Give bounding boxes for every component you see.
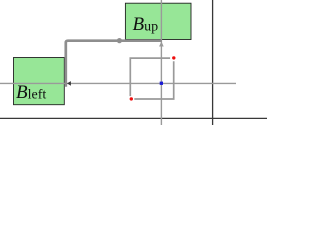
axis horizontal [0, 117, 267, 119]
node circle on path [117, 38, 122, 43]
label B_left [16, 83, 46, 103]
node red dot SW [130, 97, 133, 100]
node red dot NE [172, 56, 175, 59]
label B_up [133, 15, 159, 35]
box B_left [14, 58, 65, 105]
square around center (gaps at NE and SW corners) [130, 58, 173, 99]
node blue square center [160, 82, 163, 85]
axis vertical [212, 0, 214, 125]
box B_up [125, 3, 191, 39]
wire corridor path [66, 41, 162, 87]
arrow left toward B_left [67, 81, 71, 86]
arrow up toward B_up [159, 41, 164, 46]
grid line vertical through center [160, 0, 162, 125]
grid line horizontal through center [0, 82, 236, 84]
